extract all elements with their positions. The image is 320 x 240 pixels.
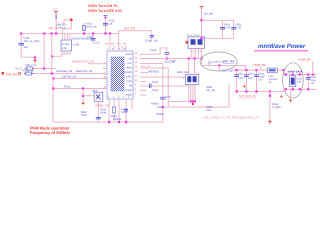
power flag GND down red — [268, 120, 271, 124]
wire BIAS stub — [140, 67, 169, 70]
wire cap pair bottom rail — [201, 37, 234, 40]
junction dots bottom rail — [108, 121, 127, 123]
svg-text:C541: C541 — [238, 73, 244, 76]
IC left pin stubs — [103, 63, 107, 89]
junction dot cap rail — [200, 19, 202, 21]
wire IC bottom pin5 — [131, 99, 134, 109]
wire sync row — [88, 62, 106, 65]
label FB row2 — [23, 70, 34, 73]
wire RT row — [53, 87, 106, 90]
wire PGND long rail — [162, 106, 229, 109]
svg-text:GATE: GATE — [126, 76, 133, 79]
svg-text:C519: C519 — [150, 49, 157, 52]
label mosfet — [177, 71, 190, 74]
wire PGOOD stub — [140, 71, 148, 74]
svg-text:SAMA DATA: SAMA DATA — [288, 70, 303, 73]
svg-text:C542: C542 — [248, 73, 254, 76]
svg-text:1uF: 1uF — [95, 42, 100, 45]
label R zero — [272, 103, 281, 109]
red plus pgnd — [243, 85, 246, 88]
inductor in callout2 — [290, 76, 296, 87]
IC top pin labels red — [105, 43, 126, 46]
junction dot row1 — [43, 67, 45, 69]
ferrite bead FB row2 — [24, 72, 34, 75]
svg-text:VG5V Turn-ON 7V: VG5V Turn-ON 7V — [88, 4, 118, 8]
IC crosshatch pad — [111, 57, 124, 91]
svg-text:VIN_S: VIN_S — [58, 27, 66, 30]
svg-text:1uF: 1uF — [24, 46, 29, 49]
wire PGND riser left — [228, 84, 231, 107]
red plus mark — [280, 95, 283, 98]
svg-text:1.5k: 1.5k — [62, 47, 68, 50]
power flag VCC cap branch — [104, 15, 108, 17]
svg-text:2200pF: 2200pF — [113, 118, 122, 121]
wire diode pins down — [191, 48, 202, 58]
label LDC_TLA — [223, 60, 235, 63]
svg-text:5V0_TX: 5V0_TX — [49, 27, 59, 30]
wire IC bottom pin2 — [113, 99, 116, 107]
wire VIN main rail — [21, 32, 119, 35]
mosfet Q5 — [185, 74, 198, 84]
label ferrite output — [269, 75, 278, 84]
testpoint diode red dot — [185, 41, 188, 44]
wire vertical interconnect return — [50, 34, 53, 74]
wire GATE long — [140, 76, 186, 79]
svg-text:C513: C513 — [87, 36, 94, 39]
svg-text:BIAS_PS: BIAS_PS — [141, 65, 151, 68]
label UVLO EN blue — [56, 70, 93, 73]
power flag GND callout2 — [289, 99, 292, 102]
svg-text:5V7_PS: 5V7_PS — [124, 27, 135, 31]
wire output rail — [232, 69, 268, 72]
capacitor C right of interconnect — [91, 34, 96, 44]
label C bulk — [24, 37, 40, 49]
label SS row — [62, 75, 77, 78]
junction dots output gnd — [236, 90, 272, 92]
svg-text:BIAS: BIAS — [127, 67, 133, 70]
label VCC_PS — [164, 61, 175, 64]
junction dot cap top — [104, 17, 106, 19]
wire IC bottom pin1 — [108, 99, 111, 123]
label C out4 — [310, 76, 316, 85]
interconnect block U5 — [61, 40, 72, 51]
label R sense a — [207, 86, 216, 92]
svg-text:1uH: 1uH — [297, 81, 302, 84]
resistor comp — [113, 107, 116, 123]
wire cap bulk to flag — [21, 56, 36, 59]
svg-text:ISNS: ISNS — [127, 80, 133, 83]
power flag VCC5 right — [200, 7, 204, 10]
wire AGND stub — [140, 94, 146, 97]
annotation PFM mode text — [30, 126, 70, 131]
annotation VGS turn-on text — [88, 4, 118, 8]
title mmWave Power — [258, 43, 306, 50]
svg-text:Q531_CSD: Q531_CSD — [177, 71, 190, 74]
svg-text:C521: C521 — [152, 81, 159, 84]
label C comp — [111, 108, 129, 121]
svg-text:0_0402: 0_0402 — [272, 106, 281, 109]
label REF_PS red — [124, 27, 135, 31]
wire output mid — [201, 64, 246, 67]
svg-text:mmWave Power: mmWave Power — [258, 43, 306, 50]
junction dot bootstrap SW — [166, 58, 168, 60]
IC U5 regulator body — [107, 51, 133, 99]
wire IC top pins — [110, 31, 127, 51]
svg-text:5V0: 5V0 — [53, 8, 58, 11]
transistor Q532 — [94, 92, 103, 101]
svg-text:MODE/SYNC_PS: MODE/SYNC_PS — [72, 60, 94, 64]
svg-text:5V0_SNS_RF: 5V0_SNS_RF — [239, 94, 257, 98]
svg-text:t1_27: t1_27 — [240, 117, 247, 120]
svg-text:100_1u_100V: 100_1u_100V — [24, 40, 40, 43]
label C 1uF top — [109, 20, 116, 26]
svg-text:1.5W: 1.5W — [73, 44, 80, 47]
capacitor C out4 — [306, 75, 311, 90]
svg-text:C514: C514 — [145, 40, 152, 43]
svg-text:22uF: 22uF — [248, 77, 254, 80]
wire TLB stub — [218, 65, 221, 71]
svg-text:1uF: 1uF — [154, 40, 159, 43]
svg-text:EN: EN — [111, 43, 114, 46]
label output net red underlined — [239, 94, 257, 98]
wire VCC stub — [140, 62, 163, 65]
mosfet pin numbers red — [183, 71, 198, 80]
junction dot gnd flag — [34, 56, 36, 58]
wire +5V0 tick — [259, 66, 262, 70]
svg-text:5V0_SW: 5V0_SW — [204, 13, 214, 16]
svg-text:A-123: A-123 — [62, 43, 69, 46]
label 5V0_TX red — [49, 27, 59, 30]
capacitor C out2 — [244, 71, 249, 92]
capacitor VCC bypass — [160, 96, 172, 100]
ellipse callout 1 — [200, 52, 237, 71]
label DNI testpoint — [57, 24, 68, 30]
svg-text:PGND: PGND — [156, 113, 164, 116]
capacitor bootstrap — [164, 48, 169, 59]
svg-text:VG5V Turn-OFF 0.5V: VG5V Turn-OFF 0.5V — [88, 9, 123, 13]
wire output feeder — [244, 65, 247, 71]
label FB row1 — [26, 64, 37, 67]
junction dots sense — [190, 100, 196, 102]
wire mosfet drain drops — [188, 59, 195, 74]
wire testpoint stub — [62, 19, 72, 33]
svg-text:t.CK_(TRIG)_TO_TR_(TRIG)_TI_GN: t.CK_(TRIG)_TO_TR_(TRIG)_TI_GND_DY — [203, 115, 258, 119]
wire RT to transistor — [83, 94, 94, 97]
power flag PGND red — [33, 59, 36, 62]
svg-text:BOOT: BOOT — [125, 53, 132, 56]
label LDC_TLB — [222, 69, 233, 72]
wire IC bottom pin4 — [125, 99, 128, 123]
svg-text:+1V8_RF: +1V8_RF — [298, 58, 311, 62]
svg-text:L5C_TLB: L5C_TLB — [222, 69, 233, 72]
junction dots output rail — [236, 69, 285, 71]
annotation frequency text — [30, 130, 70, 135]
wire BOOT riser — [160, 48, 168, 55]
capacitor C right pair 1 — [220, 21, 225, 39]
wire VCC5 drop — [200, 9, 203, 38]
svg-text:24.9k: 24.9k — [100, 112, 107, 115]
wire sense bottom — [168, 100, 196, 103]
label C ref 1uF — [145, 40, 158, 43]
svg-text:49.9_1%: 49.9_1% — [87, 26, 98, 29]
wire BOOT — [140, 53, 161, 56]
capacitor C out3 — [254, 71, 259, 92]
svg-text:Q532: Q532 — [92, 90, 99, 93]
svg-text:Frequency of 500kHz: Frequency of 500kHz — [30, 130, 70, 135]
power tick RT red — [82, 103, 84, 105]
wire VIN flag drop — [56, 14, 57, 34]
label C pair2 — [235, 24, 242, 30]
label SYNC red — [72, 60, 94, 64]
junction dot row2 — [51, 72, 53, 74]
wire far ground rail — [284, 88, 317, 91]
svg-text:SS/TRK_PS: SS/TRK_PS — [62, 75, 77, 78]
IC right pin names blue — [123, 53, 132, 97]
label SW node blue — [204, 13, 214, 16]
label R 49.9k — [87, 23, 98, 29]
svg-text:FB: FB — [129, 85, 132, 88]
capacitor C fb — [150, 84, 152, 89]
junction dot RT divider — [82, 95, 84, 97]
label diode — [186, 34, 201, 37]
power flag VIN top-left — [53, 8, 58, 14]
label AGND PGND — [151, 103, 165, 117]
junction dot gnd drop — [269, 95, 271, 97]
svg-text:4.7uF: 4.7uF — [224, 27, 231, 30]
svg-text:COMP_PS: COMP_PS — [95, 104, 109, 108]
junction dots far gnd — [285, 88, 310, 90]
capacitor C input small — [103, 16, 108, 34]
svg-text:FB52_1A: FB52_1A — [23, 70, 34, 73]
wire ISNS stub — [140, 80, 146, 83]
svg-text:VCC_PS: VCC_PS — [164, 61, 175, 64]
wire IC bottom pin3 — [118, 99, 121, 123]
svg-text:RT(k): RT(k) — [64, 85, 71, 88]
ferrite bead FB row1 — [26, 67, 35, 70]
wire output rail step — [283, 70, 286, 75]
svg-text:DNI_F51: DNI_F51 — [26, 64, 37, 67]
svg-text:D531_SS56: D531_SS56 — [186, 34, 201, 37]
wire output ground rail — [236, 90, 270, 93]
IC top pin numbers blue — [107, 48, 126, 51]
svg-text:UVLO/EN_PS: UVLO/EN_PS — [56, 70, 73, 73]
svg-text:+5V0_RF: +5V0_RF — [253, 63, 266, 67]
svg-text:0.1uF: 0.1uF — [152, 89, 159, 92]
svg-text:L5C_TLA: L5C_TLA — [223, 60, 235, 63]
label C fb — [152, 81, 159, 92]
capacitor C bulk input — [19, 34, 25, 57]
capacitor C right pair 2 — [231, 21, 236, 39]
callout 1 text — [208, 60, 225, 65]
wire interconnect top pins — [62, 34, 70, 40]
label +5V0 output red — [253, 63, 266, 67]
label bootstrap cap — [150, 49, 176, 63]
junction dots far rail — [285, 73, 314, 75]
svg-text:1uF: 1uF — [109, 23, 114, 26]
label R sense b — [207, 106, 214, 112]
capacitor emitter — [96, 117, 101, 119]
wire AGND bottom rail — [53, 121, 163, 124]
wire row1 to junction — [35, 67, 57, 70]
junction dot cap bottom — [200, 37, 202, 39]
svg-text:PG: PG — [123, 43, 126, 46]
diode dual D5 — [188, 37, 205, 49]
red dot sense — [192, 103, 194, 105]
svg-text:5m_1%: 5m_1% — [207, 89, 216, 92]
label +1V8 red right — [298, 58, 311, 62]
wire vertical x44 — [43, 34, 46, 68]
wire SW long — [140, 57, 202, 60]
svg-text:0.1uF: 0.1uF — [121, 111, 128, 114]
label R522 — [81, 111, 88, 117]
wire diode cathode drop — [200, 58, 203, 66]
svg-text:EN/UVLO_PS: EN/UVLO_PS — [76, 70, 93, 73]
svg-text:COMP: COMP — [125, 89, 132, 92]
wire vertical left x53 — [52, 78, 55, 123]
junction dot RT left — [52, 87, 54, 89]
svg-text:10.0k: 10.0k — [81, 114, 88, 117]
ellipse callout 2 — [283, 63, 304, 98]
wire gnd drop output — [268, 92, 271, 120]
wire FB stub — [140, 85, 189, 88]
label PGOOD net — [148, 69, 158, 73]
wire gnd step right — [270, 89, 285, 92]
IC bottom pin numbers — [108, 96, 130, 99]
wire interconnect bottom pins — [52, 51, 71, 57]
label COMP_PS red — [95, 104, 109, 108]
wire BIAS vertical — [167, 68, 170, 108]
svg-text:PGOOD: PGOOD — [123, 71, 132, 74]
label C pair1 — [224, 24, 231, 30]
wire VCC vertical — [161, 63, 164, 122]
IC right pin numbers red — [135, 52, 138, 96]
label 5V0_PS with circle — [6, 72, 21, 76]
svg-text:10V: 10V — [310, 82, 315, 85]
diode pin numbers red — [190, 50, 202, 53]
annotation trace note pink — [203, 115, 258, 119]
label transistor — [92, 90, 99, 93]
capacitor comp — [124, 110, 128, 112]
label C out2 — [248, 73, 254, 81]
ferrite bead output series — [267, 68, 277, 73]
junction dot SS left — [52, 77, 54, 79]
svg-text:5V0_PS: 5V0_PS — [6, 72, 17, 76]
capacitor C out1 — [234, 71, 239, 92]
svg-text:4.7uF: 4.7uF — [235, 27, 242, 30]
wire +1V8 tick — [311, 61, 314, 75]
label interconnect — [72, 38, 93, 47]
wire transistor emitter — [97, 101, 100, 122]
label R comp — [100, 109, 107, 115]
label RT row — [64, 85, 71, 88]
junction dots VIN rail — [20, 33, 111, 35]
port square 5V0 — [2, 72, 5, 75]
resistor R divider top — [83, 23, 86, 34]
annotation VGS turn-off text — [88, 9, 123, 13]
svg-text:PGOOD: PGOOD — [148, 69, 158, 73]
title underline — [254, 50, 308, 52]
junction dot output mid — [218, 64, 220, 66]
label C right 1uF — [87, 36, 100, 45]
label inductor callout2 — [297, 78, 303, 84]
svg-text:22uF: 22uF — [238, 77, 244, 80]
svg-text:10V: 10V — [258, 79, 263, 82]
wire REF jog — [118, 30, 152, 34]
junction dot RT mid — [82, 87, 84, 89]
label BIAS red — [141, 65, 151, 68]
testpoint red dot — [70, 18, 73, 21]
wire callout2 drop — [291, 75, 294, 90]
svg-text:VCC: VCC — [127, 62, 132, 65]
wire output rail far right — [284, 73, 317, 76]
wire mosfet source drops — [188, 85, 195, 102]
junction dot interconnect return — [51, 55, 53, 57]
label VBUS gray — [14, 67, 28, 71]
svg-text:VIN: VIN — [105, 43, 109, 46]
capacitor C ref — [150, 31, 155, 42]
junction dots SW node — [188, 57, 203, 59]
svg-text:DNI: DNI — [207, 109, 212, 112]
svg-text:3A: 3A — [269, 81, 272, 84]
callout 2 text — [288, 70, 303, 73]
label C out3 — [258, 73, 265, 82]
IC left pin numbers red — [104, 61, 107, 89]
wire SS row — [53, 77, 106, 80]
wire row2 to IC — [34, 72, 107, 75]
label C out1 — [238, 73, 244, 81]
wire output rail after bead — [277, 69, 284, 72]
wire gnd drop callout2 — [289, 90, 292, 99]
wire RT divider vertical — [82, 89, 85, 103]
wire COMP stub — [140, 89, 146, 92]
label corner gray — [240, 117, 247, 120]
junction dot VCC gnd — [162, 106, 164, 108]
wire cap pair top rail — [201, 19, 234, 22]
